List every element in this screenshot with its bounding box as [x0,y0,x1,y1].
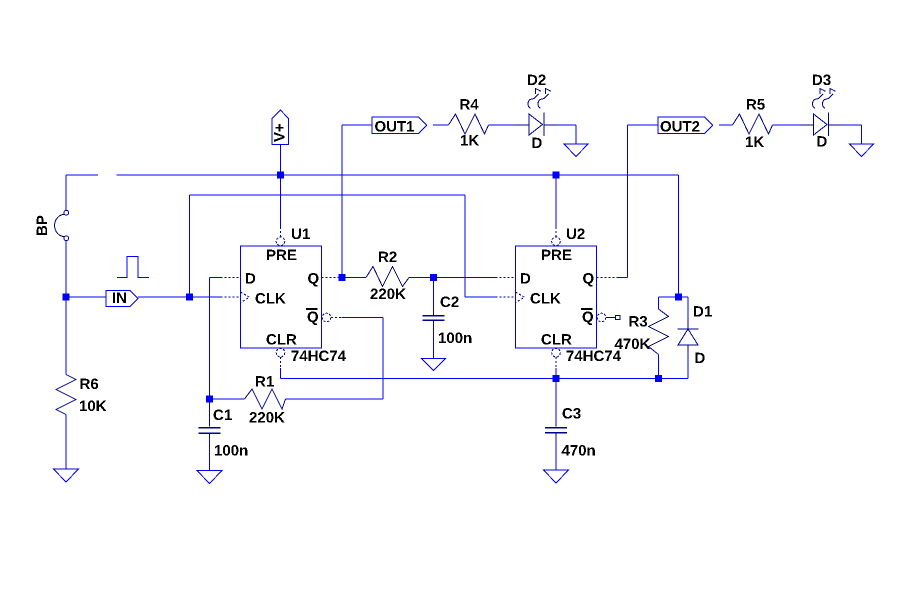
pin U2 CLK [531,293,561,304]
wire R2 to U2 D [409,277,496,279]
pin U2 CLR [542,334,572,345]
node BP / IN / R6 [63,294,70,301]
value R5 1K [746,137,764,147]
pin stub U1 Qbar [331,317,342,319]
wire OUT1 vertical [341,125,343,278]
wire U1 D drop to R1/C1 node [209,278,211,400]
wire D1 bottom lead [687,353,689,379]
wire clock bus [190,194,466,196]
wire BP stub to top bus [66,174,98,176]
pin U2 Q [583,273,593,287]
pin U1 CLR [267,334,297,345]
capacitor C1 plates [199,428,221,434]
pin stub U1 Q [322,277,342,279]
port OUT1 tag [372,117,427,134]
value U2 74HC74 [567,351,621,362]
power V+ tag box [272,119,289,145]
resistor R4 [449,114,489,134]
wire bus end drop to node R3/D1 [678,175,680,297]
pin U1 CLK [256,293,286,304]
LED D3 arrows [812,88,825,108]
pin stub U2 D [496,277,516,279]
wire C2 leads [433,278,435,359]
resistor R6 [56,375,76,415]
label OUT2 [661,121,700,132]
LED D2 arrows [528,88,541,108]
node bus / U2 PRE [553,172,560,179]
connector BP circle bottom [64,236,69,241]
pin stub U2 CLK [496,296,516,298]
LED D3 cathode bar [827,113,829,137]
wire bus to U2 PRE [555,175,557,227]
label D1 [694,306,712,316]
value R4 1K [461,135,479,145]
pin stub U1 D [221,277,241,279]
pin stub U1 PRE [280,227,282,237]
wire BP bottom lead [65,241,67,297]
port IN tag [106,291,138,307]
resistor R1 [245,389,286,409]
ground below C2 [422,359,446,371]
node R2 / C2 / U2 D [430,274,437,281]
wire U1 CLR drop [280,368,282,379]
diode D1 cathode bar [678,328,699,330]
ground below C1 [197,471,222,484]
ground below D2 [564,144,588,157]
value R1 220K [250,412,285,423]
label C2 [441,297,459,308]
node R1 / C1 / U1 D [206,396,213,403]
label R4 [461,99,479,109]
wire Qbar drop to R1 [382,318,384,400]
value R3 470K [615,339,651,350]
wire node A arms R3/D1 [659,297,689,322]
connector BP arc [55,214,65,236]
node IN / CLK bus [186,294,193,301]
U1 PRE bubble [276,237,285,246]
U2 CLR bubble [552,348,561,357]
LED D3 triangle [814,114,828,135]
pin U2 D [521,273,530,283]
pin U1 Qbar [308,312,318,326]
value U1 74HC74 [292,351,346,362]
wire R5 leads [719,124,814,126]
pin U2 PRE [542,250,571,260]
wire top supply bus [117,174,679,176]
resistor R5 [733,114,773,134]
label R3 [630,316,648,327]
capacitor C3 plates [545,428,567,433]
U1 CLK wedge [241,292,250,303]
LED D2 anode lead [516,124,558,126]
pin stub U1 CLR [280,357,282,368]
ground below D3 [850,144,874,157]
value D3 D [818,136,827,146]
capacitor C2 plates [423,316,445,321]
LED D3 anode lead [800,124,842,126]
U2 PRE bubble [552,237,561,246]
node CLR bus / R3 [655,375,662,382]
value C2 100n [439,333,471,344]
capacitor C3 leads [555,424,557,436]
resistor R2 [366,267,409,287]
label R6 [81,379,99,390]
pulse symbol [117,257,149,278]
wire to U2 CLK [465,296,496,298]
value D1 D [696,353,705,363]
label BP [37,216,47,235]
pin U2 Qbar [583,312,593,326]
wire clock bus left drop [189,195,191,297]
resistor R3 [649,309,669,355]
label OUT1 [375,121,414,132]
wire BP top lead [65,175,67,211]
wire U2 Q to OUT2 vertical [618,277,628,279]
wire clock bus right drop [464,195,466,297]
node V+ bus / U1 PRE [277,172,284,179]
value C3 470n [562,445,595,456]
label U1 [292,229,310,239]
pin U1 PRE [267,250,296,260]
pin stub U2 CLR [555,357,557,368]
wire D3 to ground [829,125,862,144]
pin stub U2 Q [597,277,618,279]
node CLR bus / C3 [553,375,560,382]
wire R6 leads [65,297,67,469]
pin stub U1 CLK [221,296,241,298]
value C1 100n [215,445,247,456]
U2 CLK wedge [516,292,525,303]
wire U1 Q to R2 [342,277,367,279]
label R1 [256,376,274,386]
capacitor C1 leads [209,424,211,438]
ground corner dots [54,144,851,472]
label D2 [528,75,546,86]
wire D2 to ground [557,125,576,144]
wire V+ to U1 PRE [280,145,282,227]
LED D2 cathode bar [543,113,545,137]
label C3 [563,408,581,419]
port OUT2 tag [658,117,713,134]
wire R1 right lead [286,398,384,400]
label R2 [379,252,397,263]
label D3 [813,75,831,86]
wire C1 leads [209,399,211,471]
label U2 [567,229,585,240]
U2 Qbar bubble [597,313,606,322]
capacitor C2 leads [433,313,435,325]
ground below C3 [544,470,569,483]
pin U1 Q [308,273,318,287]
label IN [113,293,126,303]
label R5 [747,99,765,109]
wire R1 left lead [210,398,245,400]
wire OUT1 horizontal [342,124,372,126]
wire U1 Qbar [342,317,384,319]
value 10K [80,401,107,412]
node U1 Q / OUT1 [339,274,346,281]
wire OUT2 vertical [627,125,629,278]
U2 Qbar open pin square [616,315,620,319]
U1 CLR bubble [276,348,285,357]
power V+ tag peak [272,110,289,119]
label V+ [274,124,284,142]
diode D1 triangle [678,329,698,345]
wire OUT2 horizontal [628,124,659,126]
wire C3 leads [555,379,557,471]
wire CLR bus [281,378,689,380]
ground below R6 [54,469,79,482]
wire U2 CLR drop [555,368,557,379]
pin stub U2 PRE [555,227,557,237]
U1 Qbar bubble [322,313,331,322]
wire U1 D [210,277,221,279]
diode D1 leads [687,322,689,354]
value R2 220K [371,289,406,300]
wire IN to U1 CLK [66,296,221,298]
wire R4 leads [433,124,516,126]
flip-flop U1 box [241,246,322,348]
label C1 [214,410,232,421]
node A top of R3/D1 [675,294,682,301]
LED D2 triangle [529,114,543,135]
flip-flop U2 box [516,246,597,348]
value D2 D [533,138,542,148]
wire R3 bottom lead [658,355,660,379]
wire U2 Qbar stub [606,317,616,319]
connector BP circle top [64,210,69,215]
pin U1 D [246,273,255,283]
